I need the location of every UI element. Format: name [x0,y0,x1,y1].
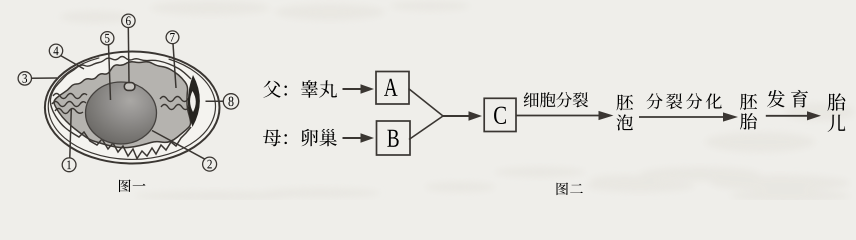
label 8 [223,94,238,109]
pointer line 8 [206,100,224,102]
arrow to box C [443,115,469,117]
pointer line 1 [70,109,72,159]
converge line from B [409,116,443,140]
label 3 [18,72,31,85]
text embryo (stacked) [740,94,757,110]
pointer line 5 [109,45,111,100]
label 2 [203,157,217,171]
label 5 [101,32,114,45]
inner thin albumen boundary (jagged bottom) [68,127,191,159]
chalaza left (wavy cords) [53,94,87,99]
inner thick albumen region (gray) [54,62,191,148]
shell membrane (inner ellipse) [48,58,215,160]
text fetus (stacked) [827,93,845,110]
text mother: ovary [263,129,281,146]
egg outer band (albumen, white) [45,52,220,164]
box A [376,72,409,105]
inner thin albumen boundary (scalloped top) [50,57,191,131]
arrow to box A [343,88,361,90]
caption figure 1 [119,179,131,192]
label division differentiation [647,93,663,109]
germinal disc [124,83,135,91]
arrow C to blastocyst [516,115,599,117]
caption figure 2 [557,182,569,195]
pointer line 2 [152,131,205,160]
label 7 [166,31,179,44]
pointer line 7 [173,44,176,88]
pointer line 3 [31,77,57,79]
pointer line 6 [127,28,130,83]
text blastocyst (stacked) [617,94,634,110]
box B [377,121,411,155]
arrow to embryo [639,116,723,118]
egg shell (outer ellipse) [45,52,220,164]
label development [767,90,785,108]
label 6 [122,14,135,27]
pointer line 4 [61,56,85,70]
label 1 [62,158,76,172]
arrow to fetus [766,115,807,117]
label cell division [524,92,539,107]
air cell highlight [190,91,196,112]
chalaza right (wavy cords) [160,97,199,102]
arrow to box B [343,137,361,139]
text father: testis [263,81,281,98]
air cell (dark lens at right) [188,75,200,127]
yolk [86,82,157,144]
converge line from A [409,89,444,117]
label 4 [49,44,62,57]
box C [484,98,516,131]
